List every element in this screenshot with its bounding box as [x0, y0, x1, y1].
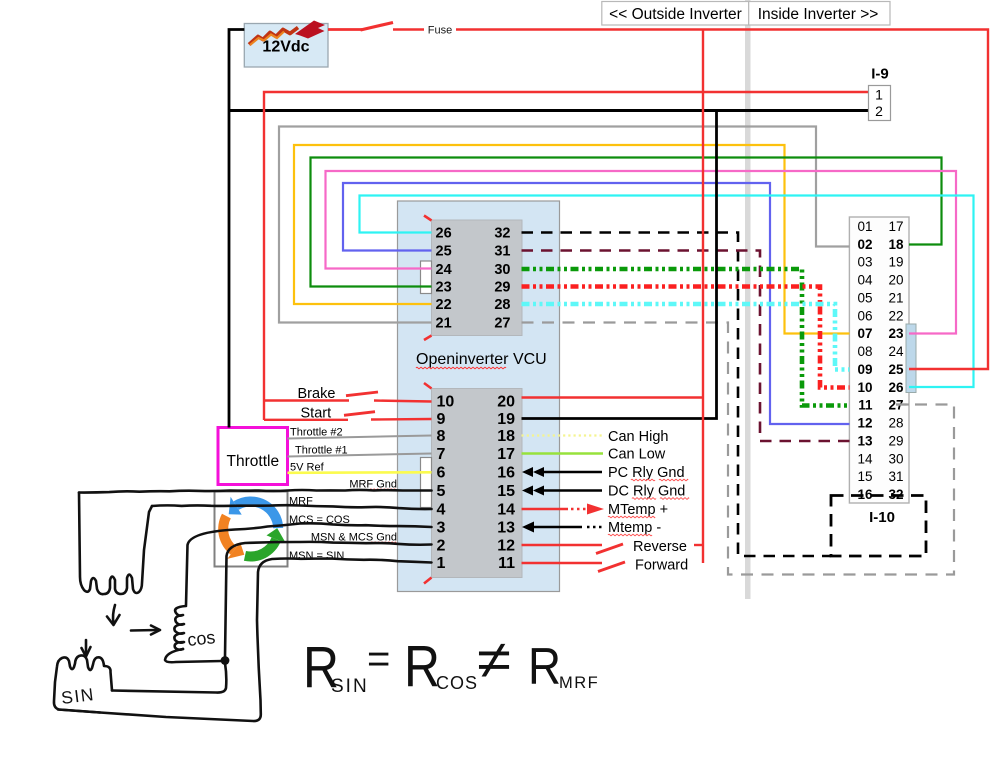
wire: green dash-dot from VCU pin 30 to inverter pin 11 [522, 269, 850, 406]
svg-text:4: 4 [437, 502, 446, 519]
wire: cos coil bottom to junction [165, 649, 222, 662]
svg-text:18: 18 [888, 237, 904, 252]
wire: red dash-dot from VCU pin 29 to inverter pin 10 [522, 287, 850, 388]
svg-text:26: 26 [888, 380, 904, 395]
wire: pink loop pin24 to inverter pin23 [326, 171, 957, 334]
lightning arrow icon on 12Vdc box [249, 28, 298, 45]
svg-text:SIN: SIN [331, 676, 369, 697]
svg-text:DC Rly Gnd: DC Rly Gnd [608, 484, 685, 500]
svg-text:28: 28 [888, 416, 903, 431]
wire: blue loop pin25 to inverter pin12 [343, 183, 850, 424]
wire: gray loop pin21 to inverter pin02 [279, 127, 850, 323]
svg-text:SIN: SIN [60, 684, 96, 708]
resolver icon frame [215, 492, 288, 567]
svg-text:MRF: MRF [559, 674, 599, 692]
svg-text:27: 27 [494, 315, 510, 331]
fuse label [424, 23, 456, 37]
wire: MRF Gnd from pot to pin 5 [79, 490, 432, 493]
wire: DC Rly Gnd into pin 15 with double arrow [536, 489, 602, 492]
wire: MSN=SIN from pin 1 down right side to SIN body [58, 558, 432, 721]
Throttle box [218, 428, 288, 485]
svg-text:Fuse: Fuse [428, 25, 452, 37]
svg-text:R: R [404, 634, 440, 699]
svg-text:MTemp +: MTemp + [608, 502, 668, 518]
svg-text:15: 15 [857, 469, 872, 484]
connector I-9 pins 1,2 [869, 86, 891, 121]
svg-text:Can Low: Can Low [608, 447, 666, 463]
svg-text:Inside Inverter >>: Inside Inverter >> [758, 6, 879, 23]
wire: red start feed with switch to pin 9 [264, 419, 348, 421]
wire: cyan dash-dot from VCU pin 28 to inverter pin 09 [522, 304, 850, 370]
wire: Mtemp - dotted into pin 13 [533, 526, 582, 529]
wire: CAN High dotted from pin 18 [522, 434, 604, 436]
wire: red +12V fused feed across top to inverter pin 25 [393, 30, 988, 370]
svg-text:17: 17 [497, 446, 515, 463]
svg-text:5V Ref: 5V Ref [290, 462, 325, 474]
svg-text:30: 30 [888, 451, 903, 466]
wire: MRF from pot wiper to pin 4 [152, 505, 432, 509]
svg-text:25: 25 [888, 362, 904, 377]
svg-text:2: 2 [437, 538, 446, 555]
wire: gold loop pin22 to inverter pin07 [294, 145, 850, 334]
svg-text:13: 13 [497, 520, 515, 537]
svg-text:Forward: Forward [635, 558, 688, 574]
svg-text:29: 29 [494, 279, 510, 295]
svg-text:21: 21 [436, 315, 452, 331]
svg-text:31: 31 [494, 243, 510, 259]
svg-text:Openinverter VCU: Openinverter VCU [416, 351, 547, 368]
red clip mark bottom connector upper [424, 383, 432, 389]
formula R_SIN = R_COS != R_MRF (handwritten) [303, 630, 599, 700]
svg-text:12: 12 [857, 416, 872, 431]
svg-text:Throttle #1: Throttle #1 [295, 445, 348, 457]
svg-text:23: 23 [888, 326, 904, 341]
svg-text:8: 8 [437, 428, 446, 445]
svg-text:I-9: I-9 [871, 66, 889, 83]
svg-text:2: 2 [875, 103, 883, 119]
svg-text:5: 5 [437, 483, 446, 500]
svg-text:Reverse: Reverse [633, 539, 687, 555]
svg-text:11: 11 [858, 398, 873, 413]
svg-text:08: 08 [857, 344, 872, 359]
wire: black dashed from VCU pin 32 down to I-10 [522, 233, 832, 557]
svg-text:26: 26 [436, 226, 452, 242]
svg-text:10: 10 [437, 394, 455, 411]
svg-text:17: 17 [888, 219, 903, 234]
svg-text:PC Rly Gnd: PC Rly Gnd [608, 465, 685, 481]
svg-text:31: 31 [888, 469, 903, 484]
wire: black ground bus to I-9 pin 2 [229, 109, 869, 112]
wire: green loop pin23 to inverter pin18 [311, 158, 942, 287]
svg-text:02: 02 [857, 237, 872, 252]
svg-text:I-10: I-10 [869, 509, 895, 526]
wire: Forward switch from pin 11 [522, 562, 603, 564]
wire: gray throttle #2 to pin 8 [288, 436, 432, 439]
inductor cos coil [174, 606, 186, 650]
VCU bottom connector (pins 1-10 / 11-20) [432, 389, 523, 578]
svg-text:9: 9 [437, 411, 446, 428]
svg-text:14: 14 [857, 451, 873, 466]
svg-text:19: 19 [888, 255, 903, 270]
wire: cyan loop pin26 to inverter pin26 [360, 196, 974, 388]
svg-text:06: 06 [857, 308, 872, 323]
svg-text:3: 3 [437, 520, 446, 537]
red clip mark bottom connector lower [424, 578, 432, 584]
svg-text:15: 15 [497, 483, 515, 500]
svg-text:20: 20 [497, 394, 515, 411]
wire: yellow 5V ref to pin 6 [288, 471, 432, 474]
wire: red VCU pin 20 to +12V feed [522, 396, 704, 398]
resolver icon orange arrow [218, 514, 237, 555]
svg-text:≠: ≠ [477, 630, 511, 690]
svg-text:COS: COS [436, 673, 478, 693]
wire: junction down-left to SIN body [112, 663, 226, 693]
inductor SIN (hand-drawn body with coil) [54, 656, 112, 713]
svg-text:=: = [367, 637, 390, 681]
svg-text:1: 1 [437, 555, 446, 572]
svg-text:MSN = SIN: MSN = SIN [289, 550, 344, 562]
svg-text:Throttle #2: Throttle #2 [290, 427, 343, 439]
svg-text:19: 19 [497, 411, 515, 428]
wire: maroon dashed from VCU pin 31 to inverter pin 13 [522, 251, 850, 442]
bottom connector key tab [421, 458, 432, 508]
resolver icon blue arrow [234, 496, 284, 528]
inverter 32-pin connector table [849, 217, 909, 503]
red clip mark top connector lower [424, 336, 432, 341]
label box: Inside Inverter [749, 2, 890, 26]
wire: black from VCU pin 19 up to ground bus [522, 111, 717, 419]
wire: MCS=COS from pin 3 down to cos coil [186, 523, 432, 605]
svg-text:10: 10 [857, 380, 872, 395]
wire: MTemp + red dash-dot out of pin 14 [522, 508, 569, 511]
VCU top connector (pins 21-26 / 27-32) [432, 220, 523, 336]
svg-text:6: 6 [437, 465, 446, 482]
hand-drawn right arrow toward cos coil [131, 629, 157, 632]
svg-text:23: 23 [436, 279, 452, 295]
wire: Reverse switch from pin 12 [522, 544, 603, 546]
svg-text:32: 32 [494, 226, 510, 242]
svg-text:12Vdc: 12Vdc [262, 39, 309, 56]
wire: red +12V vertical feed to pin20/reverse/forward [702, 30, 704, 564]
gray dashed stub at inverter pin 27 [896, 403, 909, 405]
hand-drawn down arrow above SIN coil [85, 640, 88, 654]
svg-text:22: 22 [888, 308, 903, 323]
svg-text:Mtemp -: Mtemp - [608, 520, 661, 536]
label box: Outside Inverter [602, 2, 749, 26]
wire: red from brake/start bus to I-9 pin 1 [264, 92, 869, 420]
red clip mark top connector upper [424, 216, 432, 221]
fuse switch blade [328, 28, 362, 31]
hand-drawn down arrow below pot [113, 605, 115, 623]
inverter connector side tab [906, 324, 916, 393]
resolver icon green arrow [244, 537, 281, 561]
svg-text:24: 24 [888, 344, 904, 359]
svg-text:24: 24 [436, 262, 452, 278]
wire: gray throttle #1 to pin 7 [288, 454, 432, 457]
svg-text:13: 13 [857, 434, 873, 449]
svg-text:12: 12 [497, 538, 515, 555]
svg-text:04: 04 [857, 273, 873, 288]
svg-text:07: 07 [857, 326, 872, 341]
junction node (solder dot) [221, 656, 230, 665]
svg-text:Throttle: Throttle [227, 453, 280, 470]
svg-text:21: 21 [888, 290, 903, 305]
Openinverter VCU block [398, 201, 560, 592]
svg-text:Can High: Can High [608, 429, 668, 445]
wire: black negative from 12Vdc down to Throttle [229, 30, 244, 428]
svg-text:25: 25 [436, 243, 452, 259]
svg-text:29: 29 [888, 434, 903, 449]
divider bar between outside and inside inverter [745, 0, 751, 599]
svg-text:16: 16 [497, 465, 515, 482]
svg-text:01: 01 [857, 219, 872, 234]
svg-text:28: 28 [494, 297, 510, 313]
svg-text:cos: cos [186, 627, 216, 650]
svg-text:22: 22 [436, 297, 452, 313]
wire: MSN &amp; MCS Gnd from pin 2 down to junction [225, 542, 432, 657]
svg-text:R: R [528, 638, 561, 696]
svg-text:<< Outside Inverter: << Outside Inverter [609, 6, 742, 23]
svg-text:14: 14 [497, 502, 515, 519]
svg-text:7: 7 [437, 446, 446, 463]
red spellcheck squiggle under Openinverter [416, 367, 506, 369]
svg-text:30: 30 [494, 262, 510, 278]
svg-text:09: 09 [857, 362, 872, 377]
svg-text:1: 1 [875, 87, 883, 103]
svg-text:18: 18 [497, 428, 515, 445]
svg-text:05: 05 [857, 290, 872, 305]
battery 12Vdc box [244, 24, 328, 68]
connector I-10 dashed outline [831, 496, 926, 557]
wire: red brake feed with switch to pin 10 [264, 399, 349, 401]
potentiometer MRF (hand-drawn comb) [79, 493, 152, 595]
wire: CAN Low green from pin 17 [522, 452, 604, 455]
wire: gray dashed from VCU pin 27 looping to inverter connector pin 27 [522, 323, 955, 575]
svg-text:03: 03 [857, 255, 872, 270]
svg-text:20: 20 [888, 273, 903, 288]
wire: PC Rly Gnd into pin 16 with double arrow [536, 471, 602, 474]
top connector key tab [421, 261, 432, 294]
svg-text:11: 11 [498, 555, 515, 572]
